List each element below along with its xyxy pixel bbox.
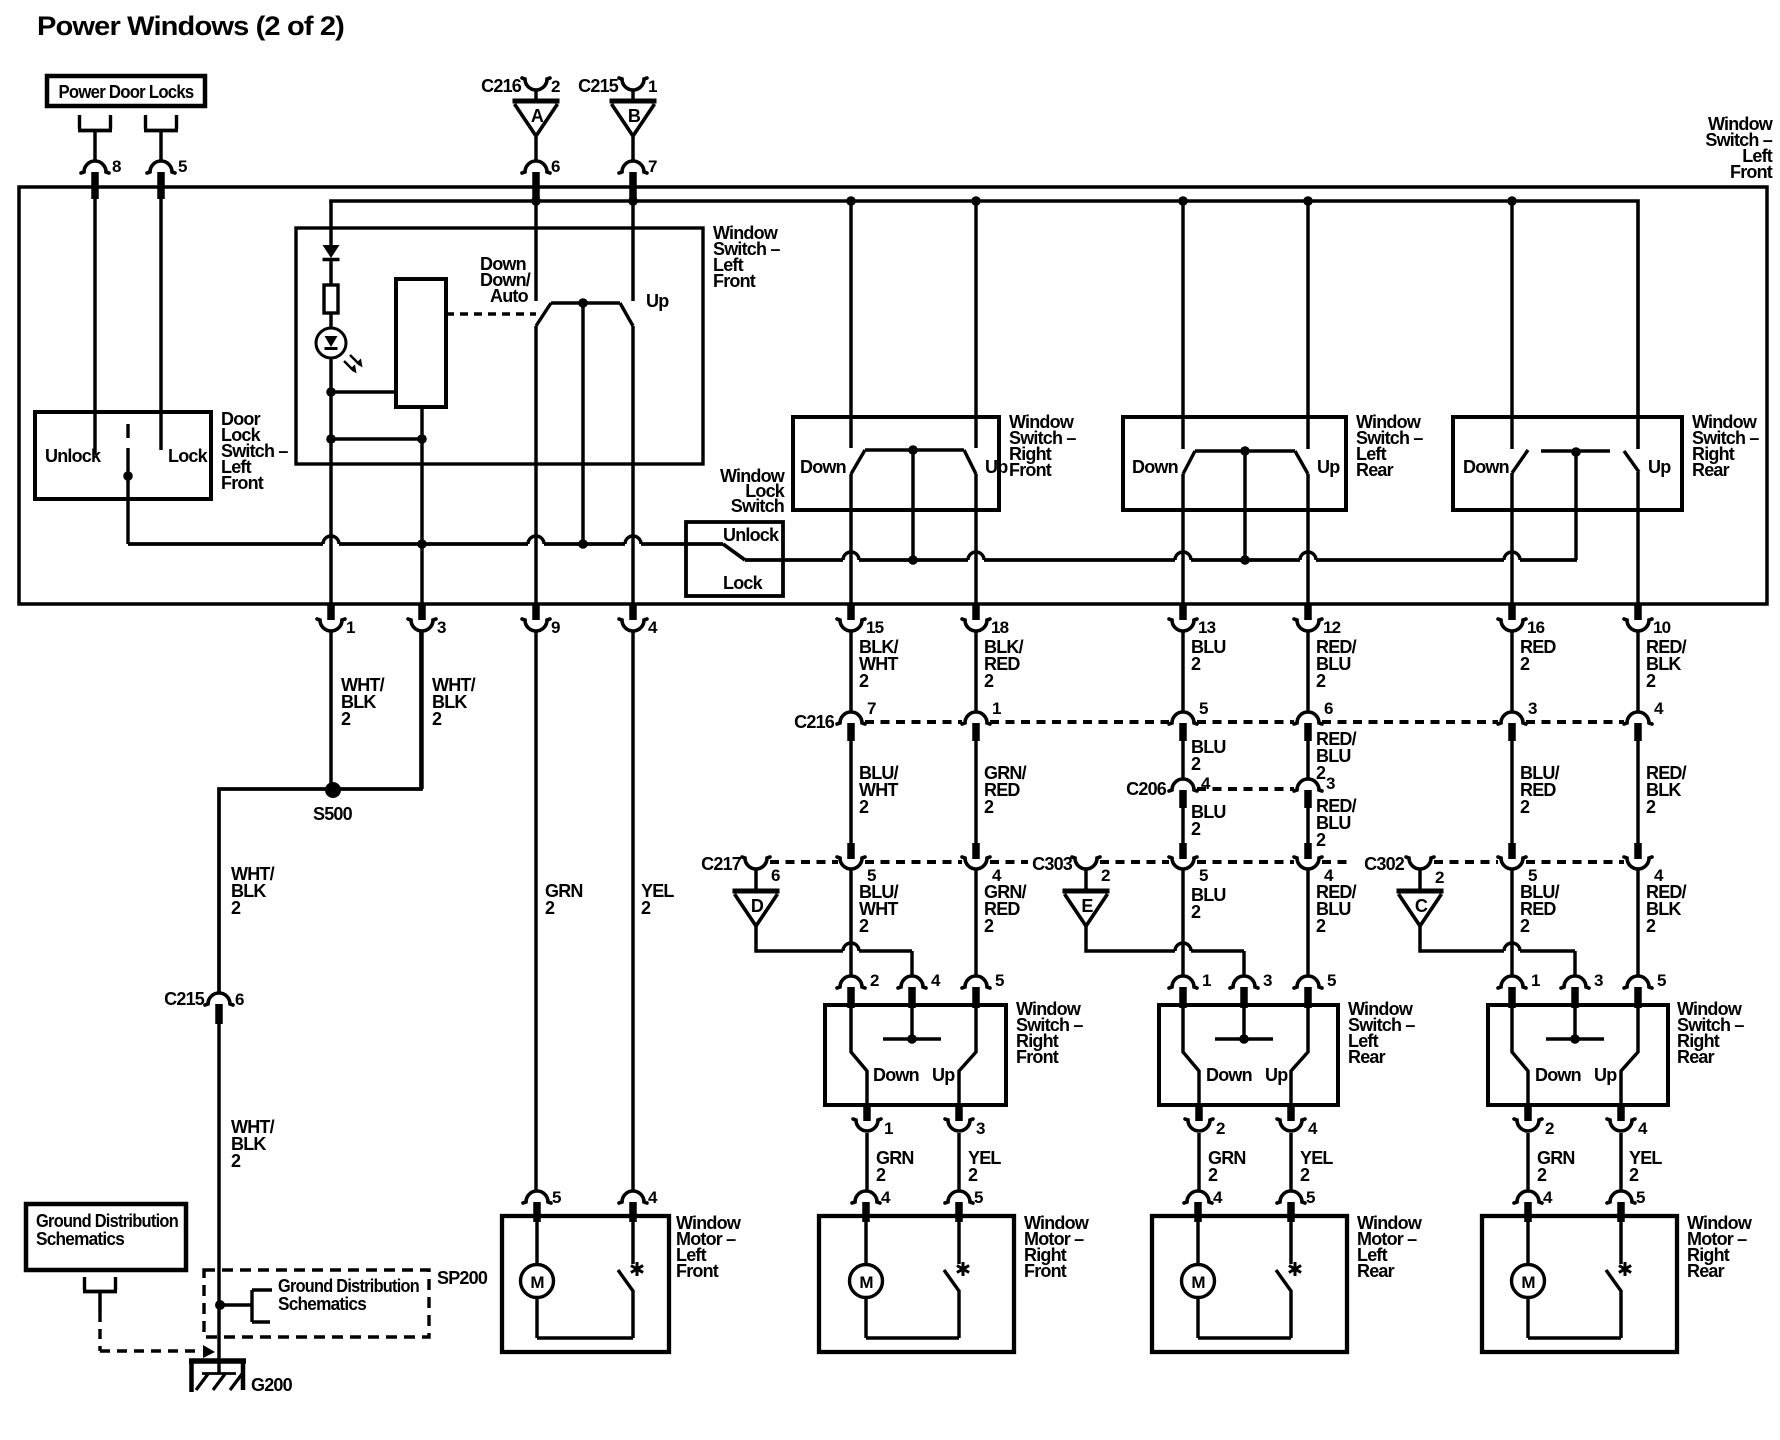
thermal protection asterisk (left front) [631,1262,643,1276]
svg-text:Schematics: Schematics [36,1229,125,1249]
label window switch right front [1016,999,1083,1067]
wire C206-3 down [1306,808,1309,847]
wire resistor to LED [329,313,332,329]
svg-text:C303: C303 [1032,854,1073,874]
svg-text:6: 6 [551,157,560,176]
connector C215 pin 6 (lower) [164,989,244,1024]
svg-text:2: 2 [1316,830,1326,850]
body connector pin 4 at x=1638 [1624,843,1664,885]
wire label BLU 2 (low) [1191,885,1226,922]
body connector pin 5 at x=851 [837,843,876,885]
pin 5 above right front lower switch [962,971,1004,1008]
LF bridge left slant [536,303,551,326]
svg-text:5: 5 [552,1188,561,1207]
wire label RED 2 (16) [1520,637,1556,674]
svg-text:7: 7 [648,157,657,176]
body connector pin 5 at x=1183 [1169,843,1208,885]
wire C216-1 down [974,741,977,847]
wire row3 4 down to pin 5 (RR) [1636,870,1639,976]
right front lower switch bar [883,1037,941,1040]
wire label RED/BLK 2 (mid) [1646,763,1687,817]
wire label RED/BLU 2 (below C206) [1316,796,1357,850]
window motor right front box [819,1216,1014,1352]
pin 3 of window switch left front (bottom) [408,605,446,637]
wire C216-4 down [1636,741,1639,847]
triangle D output wire to pin 4 [756,926,843,951]
label window motor right front [1024,1213,1090,1281]
pin 2 below right rear lower switch [1514,1105,1554,1138]
connector C216 pin 6 [1294,699,1333,741]
wire row3 5 down to pin 2 (RF) [849,870,852,976]
LF switch down feed [534,201,537,301]
svg-text:18: 18 [991,618,1009,637]
connector C216 pin 4 [1624,699,1664,741]
RF right slant [964,450,976,474]
svg-text:Unlock: Unlock [723,525,780,545]
svg-text:2: 2 [1316,916,1326,936]
thermal protection asterisk (left rear) [1289,1262,1301,1276]
junction dot lower [326,434,336,444]
svg-text:12: 12 [1323,618,1341,637]
svg-text:2: 2 [1646,797,1656,817]
module output wire down [420,407,423,439]
pin 1 below right front lower switch [853,1105,893,1138]
svg-text:5: 5 [1657,971,1666,990]
svg-text:2: 2 [859,916,869,936]
label ground distribution schematics [36,1211,178,1249]
svg-text:Power Windows (2 of 2): Power Windows (2 of 2) [37,11,344,41]
body connector pin 4 at x=976 [962,843,1002,885]
svg-text:4: 4 [881,1188,891,1207]
svg-text:Rear: Rear [1692,460,1730,480]
wire label WHT/BLK 2 (ground) [231,1117,275,1171]
svg-text:Up: Up [646,291,669,311]
wire label YEL 2 (motor) [1629,1148,1662,1185]
thermal protection asterisk (right rear) [1619,1262,1631,1276]
svg-text:3: 3 [1263,971,1272,990]
svg-text:5: 5 [1306,1188,1315,1207]
right front lower switch left feed jog [851,1008,867,1105]
pin 15 of window switch left front (bottom) [837,605,884,637]
pin 1 above right rear lower switch [1498,971,1540,1008]
svg-text:S500: S500 [313,804,353,824]
RF down feed [849,201,852,448]
svg-text:2: 2 [870,971,879,990]
svg-text:2: 2 [1191,754,1201,774]
pin 1 above left rear lower switch [1169,971,1211,1008]
LR down feed [1181,201,1184,449]
wire C216-3 down [1510,741,1513,847]
RR up wire to pin 10 [1636,472,1639,605]
pin 1 of window switch left front (bottom) [317,605,355,637]
bracket below ground distribution box [83,1277,117,1312]
pin 16 of window switch left front (bottom) [1498,605,1545,637]
svg-text:1: 1 [992,699,1001,718]
window motor left front box [502,1216,669,1352]
svg-text:5: 5 [1199,866,1208,885]
label window motor right rear [1687,1213,1753,1281]
off-page triangle B [610,101,657,136]
label door lock switch - left front [221,409,288,493]
connector C217 pin 6 [742,857,780,889]
svg-text:G200: G200 [251,1375,293,1395]
LR up feed [1306,201,1309,449]
svg-text:15: 15 [866,618,884,637]
wire diode to resistor [329,260,332,285]
svg-text:1: 1 [648,77,657,96]
svg-text:C216: C216 [794,712,835,732]
dashed actuating link from module to switch [446,312,536,316]
lock bus right segment [745,558,1577,562]
motor wires (left rear) [1198,1222,1291,1338]
svg-text:2: 2 [984,797,994,817]
wire to motor (up side) [1619,1133,1622,1191]
wire junction to module box [331,390,396,393]
svg-text:Ground Distribution: Ground Distribution [278,1276,419,1296]
svg-text:Up: Up [1648,457,1671,477]
svg-text:D: D [751,896,764,916]
pin 8 of window switch left front [81,157,121,199]
module output wire to lock bus junction [420,439,423,605]
wire triangle A to pin 6 [534,136,537,161]
wire LED down to pin 1 leg [329,357,332,392]
diode [323,245,340,260]
hop over LED column [323,536,339,544]
wire label RED/BLU 2 (above C206) [1316,729,1357,783]
svg-text:6: 6 [771,866,780,885]
right rear lower switch common stem [1573,1008,1576,1039]
svg-text:Front: Front [1009,460,1052,480]
svg-text:Front: Front [1024,1261,1067,1281]
window motor right rear box [1482,1216,1677,1352]
body connector pin 5 at x=1512 [1498,843,1537,885]
YEL wire pin4 to motor LF [631,631,634,1191]
triangle E output wire to pin 3 [1086,926,1175,951]
connector C216 pin 5 [1169,699,1208,741]
svg-text:Rear: Rear [1356,460,1394,480]
svg-text:C217: C217 [701,854,742,874]
svg-text:4: 4 [648,1188,658,1207]
svg-text:Front: Front [1016,1047,1059,1067]
C217/C303/C302 dashed connector line [770,860,1624,864]
connector bracket to pin 5 [144,115,178,160]
motor M circle (right rear) [1512,1265,1545,1298]
right rear lower switch bar dot [1570,1034,1580,1044]
S500 splice horizontal wire [219,631,421,992]
left rear lower switch right feed jog [1291,1008,1308,1105]
wire label WHT/BLK 2 (pin3) [432,675,476,729]
svg-text:E: E [1081,896,1093,916]
svg-text:2: 2 [1316,763,1326,783]
label window motor left front [676,1213,742,1281]
svg-text:Front: Front [713,271,756,291]
resistor (illumination) [324,285,338,313]
svg-text:4: 4 [1308,1119,1318,1138]
svg-text:Rear: Rear [1677,1047,1715,1067]
left rear lower switch bar [1215,1037,1273,1040]
pin 4 of window switch left front (bottom) [619,605,658,637]
svg-text:Up: Up [1594,1065,1617,1085]
lock contact wire [159,199,162,450]
window switch right front box (upper) [793,417,999,510]
svg-text:Power Door Locks: Power Door Locks [59,82,195,102]
svg-text:2: 2 [641,898,651,918]
pin 2 below left rear lower switch [1185,1105,1225,1138]
svg-text:Up: Up [1317,457,1340,477]
svg-text:2: 2 [968,1165,978,1185]
svg-text:3: 3 [1326,774,1335,793]
arrow at ground point [203,1345,215,1358]
RR down contact slash [1512,450,1528,473]
connector C206 pin 3 [1294,774,1335,808]
pin 18 of window switch left front (bottom) [962,605,1009,637]
pin 12 of window switch left front (bottom) [1294,605,1341,637]
wire C206-4 down [1181,808,1184,847]
hop over LR down [1175,552,1191,560]
wire to motor (down side) [865,1133,868,1191]
RF up feed [974,201,977,448]
pin 4 below right rear lower switch [1607,1105,1648,1138]
junction dot on output [417,434,427,444]
unlock contact wire [93,199,96,455]
window motor left rear box [1152,1216,1347,1352]
lock bus junction at module output [417,539,427,549]
LR right slant [1295,451,1308,474]
hop over YEL column [625,536,641,544]
RF common stem [911,450,914,560]
hop D wire over BLU/WHT column [843,943,859,951]
thermal protection asterisk (right front) [957,1262,969,1276]
svg-text:Down: Down [1132,457,1178,477]
svg-text:Down: Down [800,457,846,477]
svg-text:Down: Down [1463,457,1509,477]
svg-text:1: 1 [1202,971,1211,990]
svg-text:5: 5 [1636,1188,1645,1207]
connector C302 pin 2 [1406,857,1444,889]
window switch left rear box (upper) [1123,417,1346,510]
left rear lower switch bar dot [1239,1034,1249,1044]
svg-text:2: 2 [1646,916,1656,936]
LF switch common stem [581,303,584,544]
wire row3 5 down to pin 1 (RR) [1510,870,1513,976]
svg-text:Rear: Rear [1357,1261,1395,1281]
wire label WHT/BLK 2 (S500) [231,864,275,918]
svg-text:Up: Up [932,1065,955,1085]
GRN wire pin9 to motor LF [534,631,537,1191]
hop over GRN column [528,536,544,544]
LED indicator [316,328,363,374]
pin 2 above right front lower switch [837,971,879,1008]
window lock switch box [686,522,783,596]
left rear lower switch box [1159,1005,1338,1105]
wire label YEL 2 (motor) [968,1148,1001,1185]
label window motor left rear [1357,1213,1423,1281]
wire C216-7 down [849,741,852,847]
svg-text:2: 2 [1545,1119,1554,1138]
wire to motor (up side) [1289,1133,1292,1191]
auto-down module box [396,279,446,407]
wire label YEL 2 [641,881,674,918]
svg-text:2: 2 [859,797,869,817]
svg-text:6: 6 [235,990,244,1009]
pin 3 below right front lower switch [945,1105,985,1138]
svg-text:C215: C215 [164,989,205,1009]
right front lower switch bar dot [907,1034,917,1044]
svg-text:2: 2 [1191,819,1201,839]
window switch left front inner component box [296,228,703,464]
pin 3 above right rear lower switch [1561,971,1603,1008]
wire C216-6 down [1306,741,1309,778]
LF common to lock bus dot [578,539,588,549]
power door locks box [47,76,205,106]
RR up contact slash [1624,451,1639,472]
wire label BLU 2 (below C206) [1191,802,1226,839]
RR down wire to pin 16 [1510,473,1513,605]
hop over RF up [968,552,984,560]
wire to motor (down side) [1197,1133,1200,1191]
motor M circle (left rear) [1182,1265,1215,1298]
wire label RED/BLU 2 (low) [1316,882,1357,936]
svg-text:Rear: Rear [1687,1261,1725,1281]
RR bar dot [1571,447,1581,457]
svg-text:Up: Up [1265,1065,1288,1085]
pin 6 of window switch left front [522,157,560,203]
motor M circle (right front) [850,1265,883,1298]
wire row3 4 down to pin 5 (LR) [1306,870,1309,976]
left rear lower switch left feed jog [1183,1008,1199,1105]
svg-text:Front: Front [1730,162,1773,182]
off-page triangle E [1063,891,1110,926]
wire down to lower junction [329,392,332,439]
wire label BLU/WHT 2 (low) [859,882,899,936]
svg-text:2: 2 [1300,1165,1310,1185]
connector C206 pin 4 [1169,774,1211,808]
svg-text:6: 6 [1324,699,1333,718]
right rear lower switch bar [1546,1037,1604,1040]
wire label GRN 2 [545,881,583,918]
dashed link to ground point [100,1312,198,1351]
connector C303 pin 2 [1072,857,1110,889]
door lock output wire down [126,476,129,544]
wire label BLU/RED 2 (mid) [1520,763,1560,817]
svg-text:Down: Down [1206,1065,1252,1085]
svg-text:2: 2 [984,916,994,936]
svg-text:3: 3 [976,1119,985,1138]
pin 4 above right front lower switch [898,971,941,1008]
svg-text:7: 7 [867,699,876,718]
wire label BLU/WHT 2 (mid) [859,763,899,817]
svg-text:Up: Up [985,457,1008,477]
svg-text:2: 2 [1208,1165,1218,1185]
right rear lower switch left feed jog [1512,1008,1528,1105]
svg-text:16: 16 [1527,618,1545,637]
motor pin 5 (left front) [523,1188,561,1222]
wire row3 4 down to pin 5 (RF) [974,870,977,976]
RF bridge bar [865,448,964,451]
svg-text:2: 2 [1191,654,1201,674]
svg-text:2: 2 [231,898,241,918]
RR common stem [1574,452,1577,560]
ground distribution schematics box [26,1204,186,1270]
right front lower switch box [825,1005,1006,1105]
label window switch left rear [1348,999,1415,1067]
svg-text:Rear: Rear [1348,1047,1386,1067]
pin 4 below left rear lower switch [1277,1105,1318,1138]
label window switch right rear [1677,999,1744,1067]
svg-text:4: 4 [1654,699,1664,718]
wire label BLU 2 (13) [1191,637,1226,674]
wires into C216 row [851,631,1638,713]
off-page triangle D [733,891,780,926]
wire label RED/BLK 2 (low) [1646,882,1687,936]
svg-text:5: 5 [1327,971,1336,990]
svg-text:Front: Front [676,1261,719,1281]
wire junction to module output column [331,437,422,440]
wire label GRN/RED 2 (mid) [984,763,1027,817]
svg-text:2: 2 [1629,1165,1639,1185]
pin 5 of window switch left front [147,157,187,199]
ground symbol G200 [189,1361,246,1392]
svg-text:9: 9 [551,618,560,637]
svg-text:Unlock: Unlock [45,446,102,466]
svg-text:3: 3 [1594,971,1603,990]
wire label BLK/RED 2 [984,637,1024,691]
motor pin 4 (left rear) [1184,1188,1223,1222]
hop E wire over BLU column [1175,943,1191,951]
label window lock switch [720,466,786,516]
svg-text:A: A [531,106,544,126]
svg-text:C215: C215 [578,76,619,96]
svg-text:2: 2 [341,709,351,729]
ground wire C215 to G200 [217,1024,220,1374]
wire pin3 to S500 [420,631,423,789]
wire pin1 to S500 [329,631,332,789]
pin 10 of window switch left front (bottom) [1624,605,1671,637]
svg-text:2: 2 [1191,902,1201,922]
LED column wire through lock bus to box bottom [329,439,332,605]
motor pin 5 (left rear) [1277,1188,1315,1222]
svg-text:Lock: Lock [168,446,209,466]
LF switch up feed [631,201,634,301]
svg-text:5: 5 [178,157,187,176]
pin 13 of window switch left front (bottom) [1169,605,1216,637]
left rear lower switch common stem [1242,1008,1245,1039]
body connector pin 4 at x=1308 [1294,843,1334,885]
motor pin 5 (right rear) [1607,1188,1645,1222]
right rear lower switch box [1488,1005,1668,1105]
svg-text:1: 1 [346,618,355,637]
C216 dashed connector line [865,720,1624,724]
wire to motor (up side) [957,1133,960,1191]
SP200 junction dot [215,1300,225,1310]
motor wires (right rear) [1528,1222,1621,1338]
LF down contact wire to pin 9 [534,326,537,605]
wire bus to diode [329,201,332,246]
lock bus left segment [128,542,723,546]
svg-text:2: 2 [859,671,869,691]
label window switch left front (top right) [1705,114,1773,182]
LF up contact wire to pin 4 [631,326,634,605]
LF switch bridge bar [551,301,620,304]
wire label YEL 2 (motor) [1300,1148,1333,1185]
S500 splice dot [325,782,341,798]
svg-text:2: 2 [1520,916,1530,936]
svg-text:M: M [1191,1273,1205,1292]
RF left slant [851,450,865,474]
svg-text:4: 4 [931,971,941,990]
wire row3 5 down to pin 1 (LR) [1181,870,1184,976]
wire label RED/BLU 2 (12) [1316,637,1357,691]
